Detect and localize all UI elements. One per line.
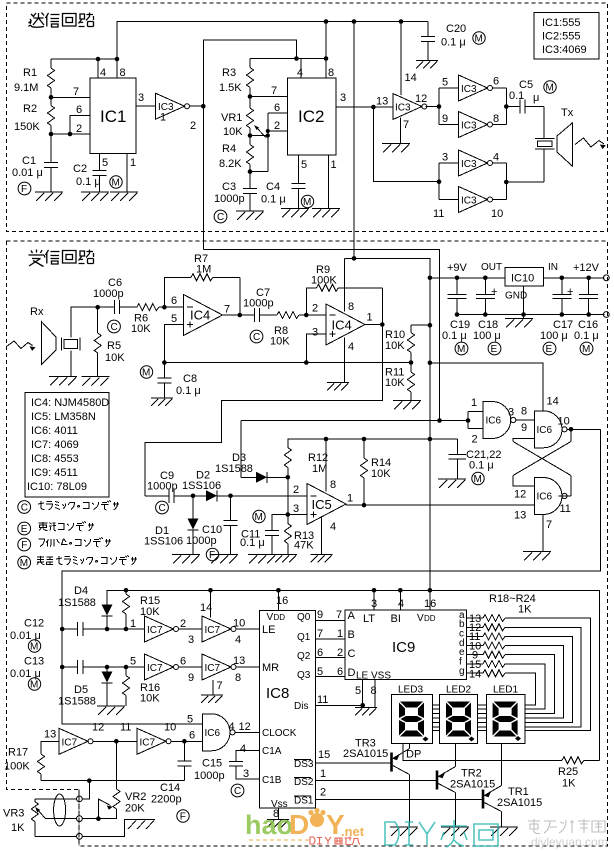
capacitor legend F film (18, 538, 111, 552)
svg-text:M: M (303, 197, 311, 208)
svg-text:g: g (459, 666, 465, 677)
svg-text:13: 13 (233, 655, 245, 667)
cable ellipse (54, 794, 66, 826)
resistor R9 feedback (306, 264, 382, 325)
multilayer symbol M (110, 176, 122, 189)
ground under TR3 (390, 827, 418, 836)
svg-text:IC7: IC7 (62, 737, 78, 748)
capacitor C4 (261, 155, 307, 209)
svg-text:IC3:4069: IC3:4069 (542, 44, 587, 56)
svg-text:C: C (234, 786, 241, 797)
capacitor C18 electrolytic (473, 278, 501, 342)
svg-text:4: 4 (235, 634, 241, 646)
svg-text:11: 11 (120, 722, 131, 734)
svg-text:IC3: IC3 (461, 196, 477, 207)
svg-text:10K: 10K (140, 606, 160, 618)
svg-text:2: 2 (190, 120, 196, 132)
svg-text:Tx: Tx (561, 107, 574, 119)
svg-text:5: 5 (355, 685, 361, 697)
node IC4 out (223, 313, 255, 318)
svg-text:14: 14 (547, 396, 559, 408)
IC1 555 (90, 59, 136, 154)
resistor R16 (123, 667, 161, 706)
svg-text:5: 5 (442, 77, 448, 89)
svg-text:20K: 20K (125, 803, 145, 815)
resistor R17 (4, 741, 59, 780)
svg-text:47K: 47K (294, 540, 314, 552)
title 受信回路 (29, 250, 94, 267)
transistor TR3 (316, 738, 410, 828)
wire IC5 pin8 supply (325, 439, 327, 492)
wire IC4b pin8 supply (344, 258, 346, 311)
wire bottom terminal (35, 820, 143, 840)
wire gateA out to gateB (516, 419, 535, 421)
svg-text:3: 3 (508, 407, 514, 419)
svg-text:BI: BI (391, 613, 401, 625)
capacitor C19 (442, 278, 470, 342)
svg-text:1: 1 (367, 312, 373, 324)
capacitor C21 bypass (449, 439, 502, 479)
wire MR row to IC8 (237, 666, 260, 668)
svg-text:1000p: 1000p (93, 288, 124, 300)
ground under IC9 (355, 708, 377, 716)
film F for C14 (177, 810, 189, 823)
svg-text:5: 5 (317, 666, 323, 678)
wire IC5 pin4 ground (321, 517, 323, 555)
svg-text:7: 7 (403, 119, 409, 131)
svg-text:10K: 10K (371, 468, 391, 480)
wire lower gate pair inputs (437, 163, 459, 200)
electrolytic E for C17 (543, 342, 556, 355)
power rail +9V/+12V (430, 262, 609, 281)
svg-text:9: 9 (188, 672, 194, 684)
node D3 R12 (286, 475, 291, 515)
svg-text:10K: 10K (270, 336, 290, 348)
svg-text:LE: LE (262, 624, 275, 636)
svg-text:M: M (30, 680, 38, 691)
svg-text:IC2:555: IC2:555 (542, 31, 581, 43)
wire IC2 pin3 out (336, 92, 393, 109)
svg-text:+: + (567, 286, 573, 298)
svg-text:12: 12 (92, 722, 104, 734)
svg-text:10K: 10K (223, 126, 243, 138)
svg-text:C: C (21, 503, 28, 514)
capacitor C7 (243, 287, 277, 322)
transistor TR2 (316, 744, 496, 828)
svg-text:VR2: VR2 (125, 791, 146, 803)
svg-text:Rx: Rx (30, 306, 44, 318)
svg-text:C: C (111, 322, 118, 333)
svg-text:0.1 μ: 0.1 μ (442, 330, 467, 342)
svg-text:1S1588: 1S1588 (58, 696, 96, 708)
svg-text:10K: 10K (131, 323, 151, 335)
svg-text:M: M (255, 512, 263, 523)
svg-text:R4: R4 (222, 143, 236, 155)
wire osc to clock gate (172, 730, 203, 744)
svg-text:C: C (159, 503, 166, 514)
speaker Tx cone (557, 107, 574, 166)
svg-text:100 μ: 100 μ (473, 330, 501, 342)
svg-text:4: 4 (398, 598, 404, 610)
ceramic C for C9 (156, 501, 169, 514)
svg-text:3: 3 (442, 152, 448, 164)
svg-text:10K: 10K (385, 377, 405, 389)
svg-text:R17: R17 (8, 747, 28, 759)
svg-text:2: 2 (337, 647, 343, 659)
node R3/VR1 pin7 (248, 85, 288, 99)
watermark haoDOY.net (245, 808, 365, 845)
display LED3 (392, 685, 433, 744)
inverter IC3 11-10 (433, 187, 503, 221)
svg-text:150K: 150K (14, 121, 40, 133)
node IC4b output (365, 322, 385, 327)
ground under IC4b (327, 383, 349, 391)
svg-text:C13: C13 (24, 656, 44, 668)
wire IC6 pin14 supply branch (430, 363, 559, 411)
svg-text:2: 2 (76, 123, 82, 135)
svg-text:1000p: 1000p (243, 298, 274, 310)
svg-text:0.1 μ: 0.1 μ (240, 537, 265, 549)
svg-text:6: 6 (180, 656, 186, 668)
svg-text:100 μ: 100 μ (540, 330, 568, 342)
multilayer symbol M for C8 (140, 366, 152, 379)
svg-text:+9V: +9V (447, 262, 468, 274)
svg-text:8: 8 (521, 406, 527, 418)
IC2 555 (288, 22, 337, 156)
svg-text:IC2: IC2 (298, 107, 324, 126)
resistor R10 (385, 325, 430, 362)
svg-text:1K: 1K (562, 778, 576, 790)
svg-text:C: C (217, 212, 224, 223)
svg-text:F: F (21, 184, 27, 195)
svg-text:16: 16 (424, 598, 436, 610)
svg-text:7: 7 (217, 680, 223, 692)
svg-text:14: 14 (469, 669, 481, 681)
capacitor C11 (240, 515, 288, 555)
svg-text:1: 1 (337, 628, 343, 640)
svg-text:4: 4 (330, 521, 336, 533)
svg-text:+12V: +12V (573, 262, 600, 274)
svg-text:IC10: IC10 (511, 273, 534, 285)
ground bus under caps (455, 312, 609, 318)
ground under R11 (393, 401, 421, 410)
ground under inv4 (201, 695, 223, 703)
svg-text:1S1588: 1S1588 (215, 463, 253, 475)
svg-text:2SA1015: 2SA1015 (450, 779, 495, 791)
svg-text:IC5: IC5 (312, 497, 332, 512)
svg-text:V: V (417, 613, 424, 624)
bias rail (162, 360, 413, 365)
flip-flop cross coupling (513, 429, 571, 496)
svg-text:6: 6 (189, 730, 195, 742)
svg-text:10K: 10K (105, 352, 125, 364)
capacitor C6 (93, 277, 137, 314)
multilayer M for C16 (580, 342, 593, 355)
emission arrow (575, 138, 606, 149)
diode D1 (144, 494, 199, 555)
svg-text:1: 1 (331, 159, 337, 171)
ground under C3 (236, 211, 264, 220)
wire osc1 output up-over to IC2 rail (189, 40, 297, 108)
segment bus between displays (432, 705, 486, 731)
wire inverter out to gate pair inputs (426, 88, 459, 125)
svg-text:E: E (491, 344, 498, 355)
nand IC6 gate B 8-9-10 (521, 406, 570, 448)
svg-text:3: 3 (188, 634, 194, 646)
wire inv1 to inv2 (179, 628, 202, 630)
svg-text:10K: 10K (140, 693, 160, 705)
ground under D5 R16 (97, 706, 125, 715)
svg-text:IC7: IC7 (147, 663, 163, 674)
wire +9V top rail (117, 19, 428, 59)
capacitor C14 (151, 741, 192, 805)
wire output S-path to detector (145, 325, 382, 496)
electrolytic E for C18 (488, 342, 501, 355)
multilayer symbol M for C5 (544, 81, 556, 94)
IC type legend box (25, 393, 109, 498)
svg-text:6: 6 (274, 102, 280, 114)
node IC5 pin3 (286, 503, 308, 517)
svg-text:8: 8 (235, 672, 241, 684)
svg-text:4: 4 (493, 152, 499, 164)
svg-text:C3: C3 (222, 181, 236, 193)
svg-text:2200p: 2200p (151, 794, 182, 806)
svg-text:100K: 100K (311, 275, 337, 287)
svg-text:D: D (348, 667, 356, 679)
capacitor C10 (186, 494, 238, 555)
svg-text:1.5K: 1.5K (219, 82, 242, 94)
ground under TR1 (490, 827, 518, 836)
wire middle terminal (46, 816, 117, 822)
svg-text:1000p: 1000p (147, 481, 178, 493)
svg-text:1S1588: 1S1588 (58, 597, 96, 609)
svg-text:10: 10 (491, 208, 503, 220)
capacitor C5 (509, 79, 544, 114)
svg-text:MR: MR (262, 662, 279, 674)
svg-text:5: 5 (102, 157, 108, 169)
svg-text:C1: C1 (22, 155, 36, 167)
ground under C1 (35, 192, 63, 201)
capacitor C20 (421, 22, 466, 61)
svg-text:M: M (142, 368, 150, 379)
wire clock to IC8 (235, 721, 260, 733)
wire signal to IC5 pin2 (231, 484, 308, 496)
svg-text:0.1: 0.1 (509, 90, 524, 102)
svg-text:7: 7 (224, 304, 230, 316)
wire Rx bottom to ground (70, 351, 72, 377)
svg-text:Q0: Q0 (297, 612, 311, 623)
svg-text:D5: D5 (74, 684, 88, 696)
svg-text:3: 3 (138, 92, 144, 104)
speaker Rx cone (30, 306, 56, 364)
svg-text:7: 7 (73, 86, 79, 98)
wire gate input net (241, 418, 470, 423)
+9V rail from regulator to transmitter (345, 256, 433, 610)
svg-text:100K: 100K (4, 761, 30, 773)
resistor R6 (131, 304, 184, 335)
wire IC8 pin16 (277, 590, 279, 610)
svg-text:F: F (180, 812, 186, 823)
wire FF output down to bottom bus (62, 429, 600, 724)
svg-text:2: 2 (274, 120, 280, 132)
op-amp IC5 (307, 479, 353, 533)
wires IC9 LT BI (374, 590, 400, 610)
svg-text:1: 1 (130, 157, 136, 169)
svg-text:6: 6 (337, 666, 343, 678)
svg-text:2: 2 (320, 787, 326, 799)
svg-text:1000p: 1000p (186, 535, 217, 547)
svg-text:IC1:555: IC1:555 (542, 17, 581, 29)
svg-text:IC8: 4553: IC8: 4553 (31, 453, 79, 465)
ceramic symbol C (214, 210, 227, 223)
wire IC10 GND (521, 286, 526, 318)
svg-text:15: 15 (318, 749, 330, 761)
inverter IC7 3-4 (188, 616, 245, 646)
wire pin5 to bias rail (164, 325, 183, 363)
svg-text:Q2: Q2 (297, 651, 311, 662)
multilayer M for C11 (253, 510, 265, 523)
svg-text:1: 1 (320, 768, 326, 780)
svg-text:IC3: IC3 (395, 103, 411, 114)
resistor R8 (270, 312, 326, 348)
wire gate pin5 from bus (202, 723, 204, 725)
ground under IC2 pin1 (312, 209, 340, 218)
svg-text:Q1: Q1 (297, 632, 311, 643)
svg-text:3: 3 (312, 327, 318, 339)
wire IC2 pin1 to ground (329, 155, 337, 209)
svg-text:M: M (112, 178, 120, 189)
wire lower gate outputs to transducer (493, 149, 545, 200)
inverter IC3 3-4 (442, 150, 499, 176)
multilayer M for C19 (455, 342, 468, 355)
ground under TR2 (441, 827, 469, 836)
resistor R25 (558, 757, 600, 790)
svg-text:OUT: OUT (481, 262, 502, 273)
inverter IC7 5-6 (130, 654, 186, 680)
capacitor C13 (10, 656, 145, 681)
svg-text:D: D (289, 809, 309, 840)
svg-text:C20: C20 (446, 23, 466, 35)
node pin6 R7 junction (162, 295, 177, 310)
svg-text:12: 12 (415, 93, 427, 105)
resistor R7 feedback (164, 253, 239, 315)
inverter IC7 13-12 oscillator (44, 722, 104, 755)
regulator IC10 (505, 268, 543, 302)
svg-text:R25: R25 (558, 766, 578, 778)
wire inv3 to inv4 (179, 666, 202, 668)
svg-text:0.1 μ: 0.1 μ (261, 194, 286, 206)
diode D5 (58, 667, 113, 708)
svg-text:IC9: IC9 (392, 639, 415, 656)
receive arrow (7, 341, 36, 351)
svg-text:IC3: IC3 (461, 84, 477, 95)
svg-text:CLOCK: CLOCK (262, 728, 297, 739)
wire IC5 out to gate C pin13 (534, 504, 536, 506)
inverter IC3 osc1 buffer (156, 93, 197, 132)
svg-text:R5: R5 (107, 340, 121, 352)
inverter IC7 1-2 (130, 616, 186, 642)
wire IC3 pin14 supply (401, 22, 417, 96)
svg-text:8: 8 (348, 301, 354, 313)
svg-text:4: 4 (348, 341, 354, 353)
wire gate C pin7 ground (543, 515, 552, 552)
op-amp IC4 second (312, 301, 373, 353)
wire IC1 pin3 out (136, 92, 156, 106)
svg-text:IC6: IC6 (537, 492, 553, 503)
svg-text:9: 9 (442, 113, 448, 125)
svg-text:C15: C15 (202, 758, 222, 770)
svg-text:M: M (475, 34, 483, 45)
resistor R3 (219, 59, 254, 97)
svg-text:12: 12 (239, 721, 251, 733)
ground under C21 (438, 479, 466, 488)
svg-text:1SS106: 1SS106 (182, 480, 221, 492)
resistor R4 (219, 136, 254, 172)
svg-text:C2: C2 (73, 163, 87, 175)
svg-text:C: C (348, 648, 356, 660)
svg-text:2SA1015: 2SA1015 (497, 797, 542, 809)
diode D4 (58, 585, 113, 629)
wires Q0-Q3 to IC9 (316, 609, 345, 678)
resistor R15 (123, 590, 161, 629)
svg-text:C1A: C1A (262, 746, 282, 757)
svg-text:12: 12 (514, 489, 526, 501)
svg-text:10K: 10K (385, 340, 405, 352)
wire osc1 output down to receiver (202, 106, 204, 249)
svg-text:5: 5 (301, 159, 307, 171)
svg-text:1K: 1K (11, 822, 25, 834)
IC5 supply rail (288, 437, 458, 448)
svg-text:1: 1 (471, 397, 477, 409)
legend box IC1 IC2 IC3 (534, 13, 599, 60)
svg-text:11: 11 (317, 694, 328, 706)
node gate B output (567, 427, 600, 432)
svg-text:IC3: IC3 (461, 121, 477, 132)
nand IC6 clock gate 5-6-4 (187, 714, 235, 751)
svg-text:DD: DD (274, 613, 286, 622)
wire DP net (403, 744, 562, 761)
capacitor C17 electrolytic (540, 278, 573, 342)
timing rail R17 C14 (41, 778, 184, 783)
wire IC1 pin1 to ground (127, 154, 136, 193)
svg-text:IC6: IC6 (486, 416, 502, 427)
svg-text:C4: C4 (266, 181, 280, 193)
svg-text:0.1 μ: 0.1 μ (469, 460, 494, 472)
svg-text:C1B: C1B (262, 775, 282, 786)
svg-text:C: C (253, 332, 260, 343)
svg-text:M: M (20, 558, 28, 569)
svg-text:hao: hao (245, 810, 293, 840)
node R2/C1 junction pin2 (49, 132, 90, 137)
svg-text:16: 16 (276, 595, 288, 607)
resistor R12 (284, 439, 328, 477)
svg-text:6: 6 (171, 295, 177, 307)
svg-text:1: 1 (130, 618, 136, 630)
ceramic symbol C for C6 (108, 320, 121, 333)
svg-text:5: 5 (171, 313, 177, 325)
svg-text:IN: IN (548, 262, 558, 273)
svg-text:IC7: IC7 (205, 625, 221, 636)
wire osc reference across to gate (203, 250, 439, 421)
svg-text:M: M (474, 474, 482, 485)
wire IC2 out down to lower gates (373, 107, 439, 182)
svg-text:R3: R3 (222, 67, 236, 79)
svg-text:IC9: 4511: IC9: 4511 (31, 467, 78, 479)
svg-text:IC7: IC7 (205, 663, 221, 674)
multilayer M for C21 (472, 472, 484, 485)
capacitor C15 (194, 743, 260, 782)
svg-text:V: V (267, 612, 274, 623)
